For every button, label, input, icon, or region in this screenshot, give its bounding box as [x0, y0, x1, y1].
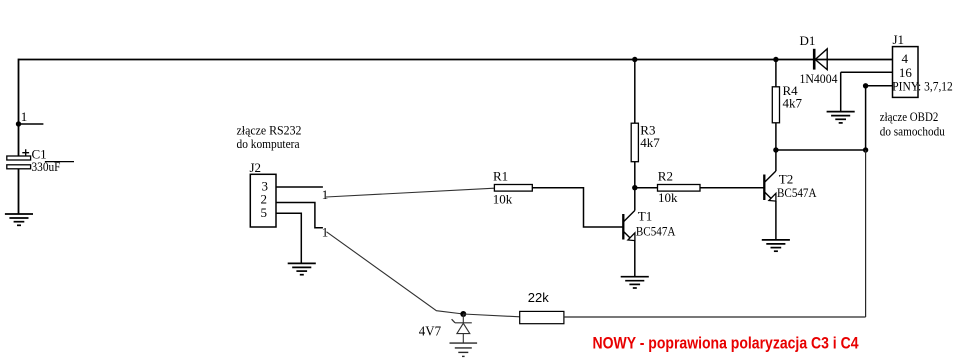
svg-text:BC547A: BC547A — [636, 224, 676, 239]
node 1 label — [21, 109, 28, 124]
connector J2 pin 5 label — [261, 205, 268, 220]
svg-text:5: 5 — [261, 205, 268, 220]
svg-text:1: 1 — [21, 109, 28, 124]
svg-text:złącze OBD2: złącze OBD2 — [880, 109, 939, 124]
svg-text:T1: T1 — [638, 209, 652, 224]
connector J1 pin label PINY: 3,7,12 — [892, 79, 953, 94]
resistor R3 ref label — [640, 122, 655, 137]
text do komputera — [237, 136, 300, 151]
ground below zener — [450, 343, 478, 356]
text do samochodu — [880, 124, 945, 139]
wire right rail vertical — [865, 86, 867, 317]
svg-text:PINY: 3,7,12: PINY: 3,7,12 — [892, 79, 953, 94]
transistor T2 ref label — [779, 171, 793, 186]
transistor T2 — [764, 150, 776, 240]
resistor R1 value label 10k — [493, 191, 513, 206]
resistor 22k body — [520, 311, 564, 323]
wire J1 pin 16 — [841, 72, 893, 111]
wire top rail to R3 — [634, 60, 636, 124]
resistor R2 ref label — [658, 168, 673, 183]
wire J2 pin 5 — [276, 213, 301, 263]
wire R3 to collector node — [634, 162, 636, 188]
diode D1 — [814, 49, 827, 70]
connector J2 pin 2 label — [261, 192, 268, 207]
junction dot zener node — [460, 311, 466, 317]
wire J2 pin 3 — [276, 186, 323, 188]
wire slanted pin3 to R1 — [326, 188, 494, 197]
connector J1 pin 16 label — [899, 65, 913, 80]
connector J1 ref label — [893, 32, 905, 47]
zener diode 4V7 value label — [419, 325, 441, 340]
transistor T1 value label BC547A — [636, 224, 676, 239]
svg-text:1N4004: 1N4004 — [800, 71, 838, 86]
svg-text:4V7: 4V7 — [419, 325, 441, 340]
resistor R2 value label 10k — [658, 190, 678, 205]
capacitor C1 top plate — [7, 156, 31, 160]
svg-text:do samochodu: do samochodu — [880, 124, 945, 139]
ground below T1 emitter — [621, 277, 649, 288]
wire stub right of C1 — [45, 161, 74, 163]
transistor T1 — [623, 188, 635, 277]
capacitor C1 ref label — [32, 147, 47, 162]
wire left rail upper — [18, 59, 20, 156]
ground below T2 emitter — [762, 240, 790, 251]
wire J2 pin 2 — [276, 203, 323, 228]
connector J2 ref label — [250, 160, 262, 175]
text zlacze OBD2 — [880, 109, 939, 124]
resistor R1 body — [494, 185, 532, 192]
zener diode D2 — [452, 314, 472, 343]
wire zener node to 22k — [463, 314, 519, 317]
wire left rail lower — [18, 169, 20, 214]
resistor R4 body — [772, 87, 779, 123]
resistor R1 ref label — [493, 169, 508, 184]
connector J2 body — [250, 174, 276, 227]
svg-text:R2: R2 — [658, 168, 673, 183]
wire J1 PINY pin — [866, 85, 893, 87]
diode D1 value label 1N4004 — [800, 71, 838, 86]
wire node 1 stub — [19, 123, 44, 125]
wire collector node to right rail — [776, 149, 866, 151]
wire node to R2 — [635, 187, 658, 189]
text NOWY - poprawiona polaryzacja C3 i C4 — [593, 334, 859, 353]
text zlacze RS232 — [237, 123, 302, 138]
junction dot T1 collector node — [632, 185, 637, 190]
ground below J2 pin 5 — [288, 263, 316, 274]
net label 1 at pin 2 wire end — [322, 225, 329, 240]
transistor T1 ref label — [638, 209, 652, 224]
resistor 22k value label — [528, 290, 549, 305]
svg-text:J1: J1 — [893, 32, 905, 47]
diode D1 ref label — [800, 33, 816, 48]
svg-text:do komputera: do komputera — [237, 136, 300, 151]
svg-text:10k: 10k — [658, 190, 678, 205]
wire R1 to T1 base — [532, 188, 623, 227]
capacitor C1 bottom plate — [7, 165, 31, 169]
wire 22k to right rail — [564, 316, 866, 318]
svg-text:BC547A: BC547A — [777, 185, 817, 200]
resistor R3 body — [631, 123, 638, 162]
svg-text:NOWY - poprawiona polaryzacja: NOWY - poprawiona polaryzacja C3 i C4 — [593, 334, 859, 353]
junction dot J1 PINY node — [863, 83, 868, 88]
svg-text:J2: J2 — [250, 160, 262, 175]
capacitor C1 value label 330uF — [32, 159, 61, 174]
resistor R3 value label 4k7 — [640, 135, 660, 150]
svg-text:22k: 22k — [528, 290, 549, 305]
wire slanted pin2 to zener node — [327, 232, 464, 314]
resistor R2 body — [658, 185, 701, 192]
wire top rail to R4 — [775, 60, 777, 87]
resistor R4 ref label — [783, 83, 799, 98]
node 1 junction dot — [16, 121, 21, 126]
connector J1 pin 4 label — [902, 51, 909, 66]
wire R2 to T2 base — [700, 187, 764, 189]
transistor T2 value label BC547A — [777, 185, 817, 200]
ground below C1 — [5, 214, 33, 225]
junction dot R3 top — [632, 57, 637, 62]
wire top supply rail — [19, 59, 893, 61]
junction dot R4 top — [773, 57, 778, 62]
connector J2 pin 3 label — [262, 178, 269, 193]
svg-text:4k7: 4k7 — [640, 135, 660, 150]
svg-text:1: 1 — [322, 187, 329, 202]
junction dot right rail — [863, 147, 868, 152]
resistor R4 value label 4k7 — [783, 95, 803, 110]
svg-text:4: 4 — [902, 51, 909, 66]
capacitor C1 plus sign — [22, 149, 29, 156]
svg-text:4k7: 4k7 — [783, 95, 803, 110]
wire R4 to collector node — [775, 123, 777, 150]
svg-text:R1: R1 — [493, 169, 508, 184]
svg-text:D1: D1 — [800, 33, 816, 48]
ground below J1 pin 16 — [827, 112, 855, 123]
svg-text:10k: 10k — [493, 191, 513, 206]
net label 1 at pin 3 wire end — [322, 187, 329, 202]
connector J1 body — [893, 47, 919, 98]
junction dot T2 collector node — [773, 147, 778, 152]
